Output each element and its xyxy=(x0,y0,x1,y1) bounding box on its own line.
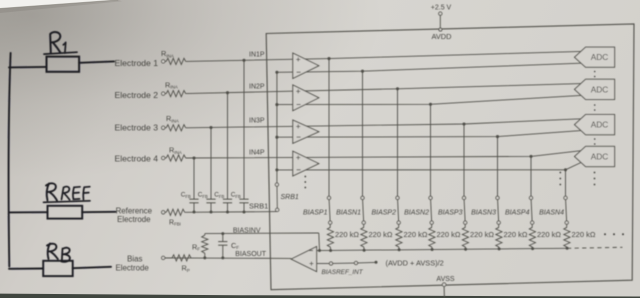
capacitor C_F (bias feedback) xyxy=(218,232,239,259)
wire IN2P (electrode 2 to ADC) xyxy=(186,84,581,94)
resistor R_F (bias feedback) xyxy=(192,234,208,260)
svg-text:IN1P: IN1P xyxy=(249,51,265,58)
svg-text:220 kΩ: 220 kΩ xyxy=(504,230,528,239)
capacitor C_FB (electrode 2) xyxy=(223,91,232,213)
hand-drawn wire RREF left xyxy=(9,211,48,213)
ellipsis dots after last 220k xyxy=(604,233,624,235)
svg-text:Electrode 2: Electrode 2 xyxy=(115,90,159,100)
svg-text:Electrode 4: Electrode 4 xyxy=(115,154,159,164)
capacitor C_FB label (electrode 3) xyxy=(198,192,208,199)
value label 220 k&#937; (BIASP1) xyxy=(335,230,359,239)
capacitor C_FB label (electrode 2) xyxy=(214,192,224,199)
dark photo edge strip bottom xyxy=(0,294,640,298)
capacitor C_FB (electrode 1) xyxy=(239,59,248,214)
svg-text:AVDD: AVDD xyxy=(432,32,452,41)
hand-drawn label RREF xyxy=(44,183,91,202)
AVSS terminal and wire xyxy=(442,283,446,298)
op-amp buffer U3 (channel 3) xyxy=(293,120,319,143)
net label BIASN3 (italic) xyxy=(471,210,496,217)
Electrode 3 label xyxy=(115,123,159,133)
resistor R_INA (electrode 4) xyxy=(165,146,186,161)
net label BIASP4 (italic) xyxy=(505,210,530,217)
svg-text:Electrode 3: Electrode 3 xyxy=(115,123,159,133)
switch + resistor 220 kOhm column BIASN1 xyxy=(361,70,367,252)
resistor R_INA (electrode 3) xyxy=(165,114,186,131)
svg-text:Bias: Bias xyxy=(127,255,142,264)
pin label IN2P xyxy=(249,84,265,91)
net label BIASN1 (italic) xyxy=(336,210,361,217)
hand-drawn wire RREF right xyxy=(82,211,115,213)
svg-text:Electrode: Electrode xyxy=(115,263,149,272)
capacitor C_FB (electrode 3) xyxy=(206,126,215,214)
hand-drawn wire R1 left xyxy=(9,66,47,69)
svg-text:220 kΩ: 220 kΩ xyxy=(537,230,561,239)
ellipsis more channels (below ch4 op-amp) xyxy=(304,176,306,189)
net label BIASN2 (italic) xyxy=(404,210,429,217)
op-amp buffer U2 (channel 2) xyxy=(293,85,319,111)
ellipsis more channels (below ch4 line left) xyxy=(559,172,561,186)
hand-drawn wire R1 right xyxy=(79,61,114,62)
svg-text:220 kΩ: 220 kΩ xyxy=(437,230,461,239)
svg-text:AVSS: AVSS xyxy=(436,276,454,283)
net label BIASN4 (italic) xyxy=(539,210,564,217)
svg-text:220 kΩ: 220 kΩ xyxy=(572,230,596,239)
svg-text:BIASP4: BIASP4 xyxy=(505,210,530,217)
wire IN1P (electrode 1 to ADC) xyxy=(186,51,581,61)
wire IN3P (electrode 3 to ADC) xyxy=(186,119,581,128)
switch + resistor 220 kOhm column BIASN2 xyxy=(429,103,435,251)
electrode 4 input terminal xyxy=(162,156,165,159)
wire BIASINV xyxy=(205,233,321,252)
hand-drawn label RB xyxy=(47,244,70,262)
net label BIASP1 (italic) xyxy=(303,210,328,217)
svg-text:ADC: ADC xyxy=(591,52,609,62)
svg-text:BIASOUT: BIASOUT xyxy=(235,251,266,258)
electrode 2 input terminal xyxy=(162,92,165,95)
switch + resistor 220 kOhm column BIASP1 xyxy=(327,57,333,252)
switch + resistor 220 kOhm column BIASP4 xyxy=(529,155,535,250)
svg-text:BIASP3: BIASP3 xyxy=(438,210,463,217)
hand-drawn wire RB left xyxy=(9,268,43,270)
reference electrode terminal xyxy=(162,211,165,214)
hand-drawn label R1 xyxy=(44,32,77,54)
value label 220 k&#937; (BIASN3) xyxy=(504,230,528,239)
svg-text:(AVDD + AVSS)/2: (AVDD + AVSS)/2 xyxy=(386,258,444,267)
Bias Electrode label xyxy=(115,255,149,273)
pin label IN3P xyxy=(249,117,265,124)
electrode 3 input terminal xyxy=(162,126,165,129)
svg-text:BIASP2: BIASP2 xyxy=(371,210,396,217)
svg-text:IN3P: IN3P xyxy=(249,117,265,124)
Electrode 1 label xyxy=(115,58,159,68)
svg-text:Electrode 1: Electrode 1 xyxy=(115,58,159,68)
capacitor C_FB (electrode 4) xyxy=(189,156,198,213)
svg-text:+2.5 V: +2.5 V xyxy=(431,5,452,12)
wire IN4N feedback (SRB1 bus via BIASN4 tap to ADC lower input) xyxy=(277,163,581,170)
svg-text:BIASREF_INT: BIASREF_INT xyxy=(322,269,364,276)
pin label SRB1 xyxy=(249,202,268,211)
switch + resistor 220 kOhm column BIASN3 xyxy=(496,135,502,250)
resistor R_INA (electrode 2) xyxy=(165,80,186,96)
value label 220 k&#937; (BIASN1) xyxy=(369,230,393,239)
net label BIASREF_INT (italic) xyxy=(322,269,364,276)
wire IN2N feedback (SRB1 bus via BIASN2 tap to ADC lower input) xyxy=(277,95,581,104)
wire bias summing rail to inverting input xyxy=(317,247,623,250)
resistor R_INA (electrode 1) xyxy=(161,49,186,64)
svg-text:BIASN3: BIASN3 xyxy=(471,210,496,217)
op-amp buffer U1 (channel 1) xyxy=(293,53,319,78)
net label BIASINV xyxy=(233,228,261,235)
label (AVDD + AVSS)/2 xyxy=(386,258,444,267)
ellipsis between ADCs xyxy=(594,71,596,145)
switch + resistor 220 kOhm column BIASN4 xyxy=(564,168,570,250)
resistor R_P (bias electrode) xyxy=(165,255,191,273)
svg-text:220 kΩ: 220 kΩ xyxy=(369,230,393,239)
svg-text:BIASN4: BIASN4 xyxy=(539,210,564,217)
pin label IN4P xyxy=(249,150,265,157)
value label 220 k&#937; (BIASP2) xyxy=(404,230,428,239)
net label BIASP2 (italic) xyxy=(371,210,396,217)
net label SRB1 (internal, italic) xyxy=(281,194,299,201)
svg-text:220 kΩ: 220 kΩ xyxy=(404,230,428,239)
op-amp buffer U4 (channel 4) xyxy=(293,151,319,176)
electrode 1 input terminal xyxy=(162,60,165,63)
capacitor C_FB label (electrode 1) xyxy=(231,192,241,199)
svg-text:220 kΩ: 220 kΩ xyxy=(335,230,359,239)
svg-text:IN2P: IN2P xyxy=(249,84,265,91)
wire IN4P (electrode 4 to ADC) xyxy=(186,151,581,158)
net AVDD label xyxy=(432,32,452,41)
hand-drawn resistor box RREF xyxy=(48,206,83,219)
wire SRB1 (reference electrode to switch) xyxy=(185,211,277,214)
hand-drawn wire RB right xyxy=(73,267,111,268)
hand-drawn resistor box RB xyxy=(43,261,72,276)
ellipsis more channels (below ADC4) xyxy=(594,172,596,186)
resistor R_INA (reference electrode) xyxy=(165,209,185,227)
pin label IN1P xyxy=(249,51,265,58)
value label 220 k&#937; (BIASP4) xyxy=(537,230,561,239)
bias op-amp U5 xyxy=(291,247,316,272)
Electrode 4 label xyxy=(115,154,159,164)
hand-drawn wire left bus xyxy=(9,53,11,267)
net AVSS label xyxy=(436,276,454,283)
IC boundary box (device outline) xyxy=(266,24,634,290)
SRB1 internal bus with junctions to channel N lines xyxy=(275,71,278,183)
svg-text:ADC: ADC xyxy=(591,84,609,94)
net label BIASP3 (italic) xyxy=(438,210,463,217)
svg-text:220 kΩ: 220 kΩ xyxy=(470,230,494,239)
svg-text:BIASN1: BIASN1 xyxy=(336,210,361,217)
white table wedge top-left xyxy=(0,0,122,13)
supply +2.5 V terminal xyxy=(431,5,452,32)
ADC block channel 1 xyxy=(575,47,615,67)
value label 220 k&#937; (BIASP3) xyxy=(470,230,494,239)
ADC block channel 3 xyxy=(575,115,615,135)
net label BIASOUT xyxy=(235,251,266,258)
switch + resistor 220 kOhm column BIASP2 xyxy=(396,87,402,251)
svg-text:BIASN2: BIASN2 xyxy=(404,210,429,217)
ADC block channel 4 xyxy=(575,146,615,166)
svg-text:IN4P: IN4P xyxy=(249,150,265,157)
wire BIASREF_INT with switch xyxy=(317,261,378,265)
bias electrode terminal xyxy=(162,256,165,259)
capacitor C_FB label (electrode 4) xyxy=(181,192,191,199)
svg-text:BIASP1: BIASP1 xyxy=(303,210,328,217)
Electrode 2 label xyxy=(115,90,159,100)
svg-text:SRB1: SRB1 xyxy=(281,194,299,201)
SRB1 internal switch (contacts and blade) xyxy=(275,183,279,212)
svg-text:Electrode: Electrode xyxy=(117,215,151,224)
ADC block channel 2 xyxy=(575,79,615,99)
svg-text:ADC: ADC xyxy=(591,120,609,130)
svg-text:ADC: ADC xyxy=(591,152,609,162)
svg-text:SRB1: SRB1 xyxy=(249,202,268,211)
Reference Electrode label xyxy=(116,207,153,225)
wire IN3N feedback (SRB1 bus via BIASN3 tap to ADC lower input) xyxy=(277,131,581,138)
value label 220 k&#937; (BIASN2) xyxy=(437,230,461,239)
wire IN1N feedback (SRB1 bus via BIASN1 tap to ADC lower input) xyxy=(277,63,581,72)
switch + resistor 220 kOhm column BIASP3 xyxy=(462,122,468,250)
wire BIASOUT xyxy=(165,257,291,260)
hand-drawn resistor box R1 xyxy=(47,57,80,72)
value label 220 k&#937; (BIASN4) xyxy=(572,230,596,239)
